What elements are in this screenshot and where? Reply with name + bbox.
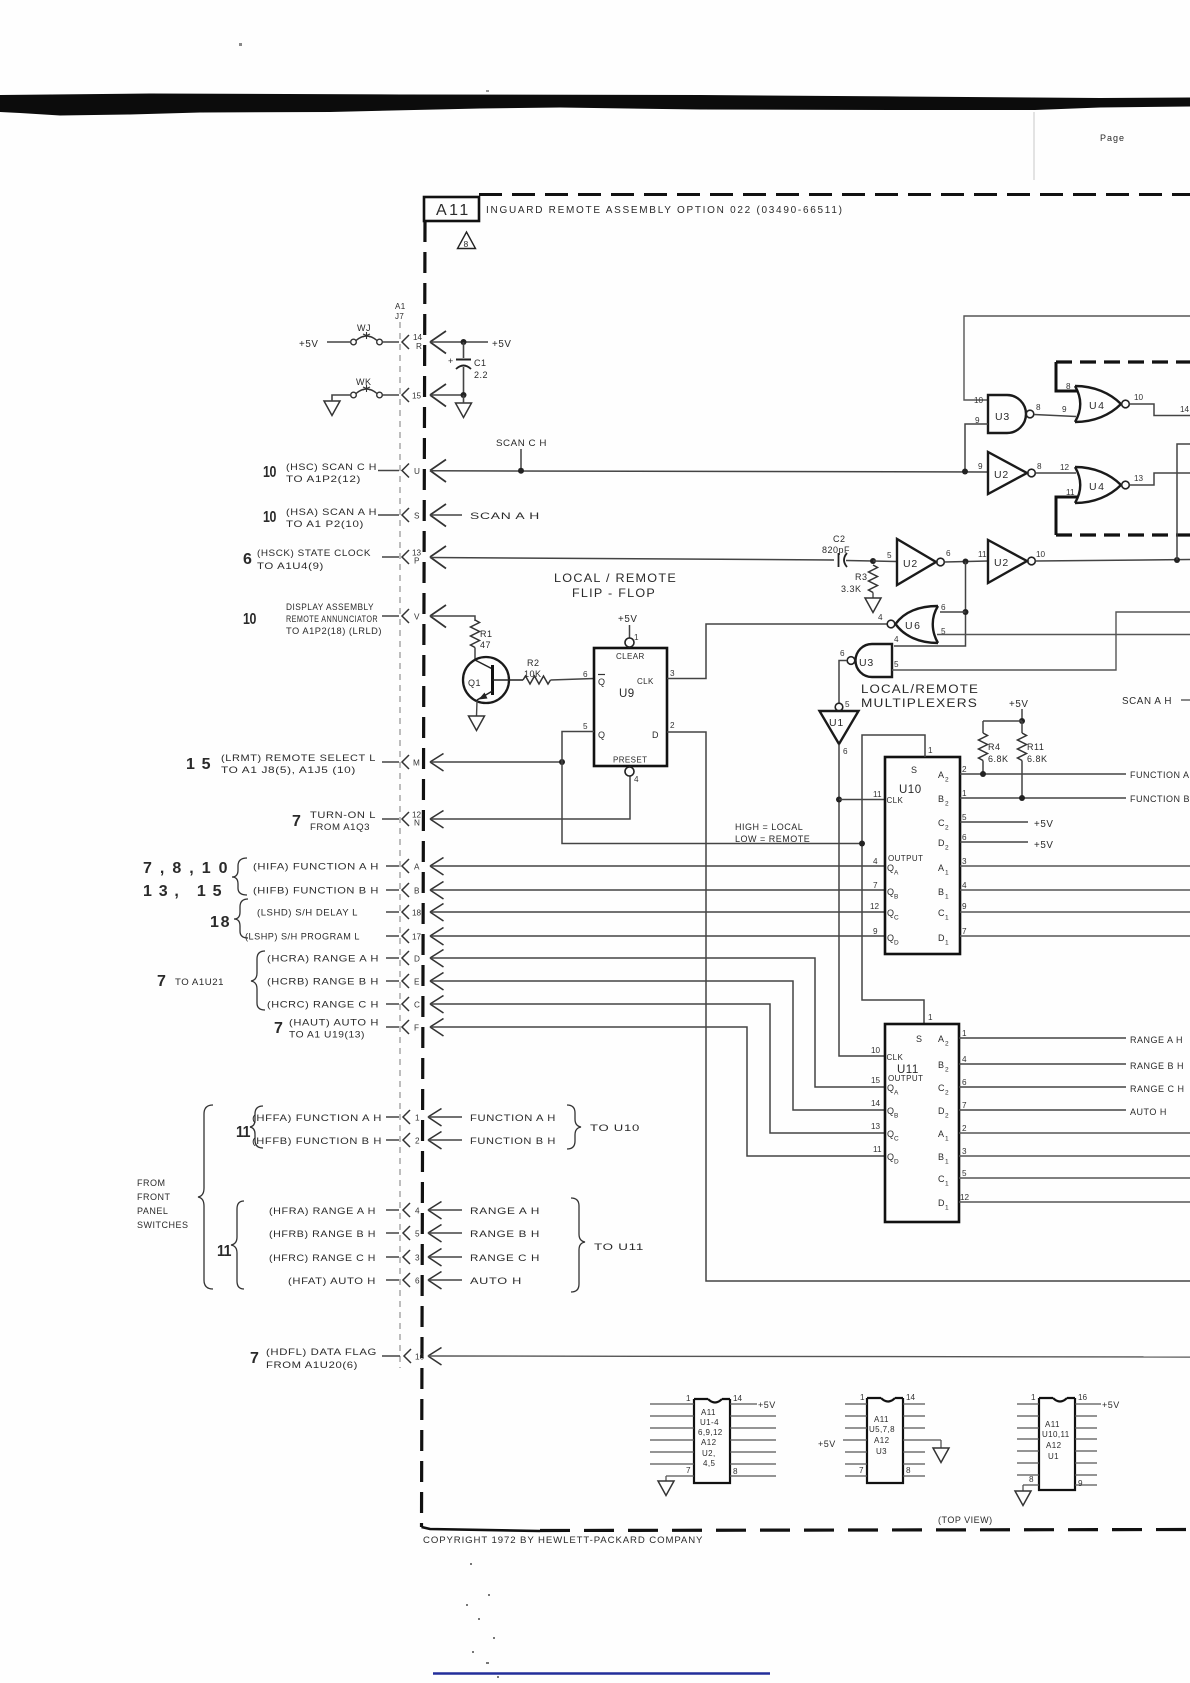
svg-text:3: 3 xyxy=(962,1147,967,1156)
svg-text:+5V: +5V xyxy=(818,1439,836,1449)
svg-text:5: 5 xyxy=(894,660,899,669)
svg-text:TO A1 U19(13): TO A1 U19(13) xyxy=(289,1030,365,1040)
svg-text:FROM A1Q3: FROM A1Q3 xyxy=(310,822,370,832)
scan artifact: blue line xyxy=(433,1672,770,1674)
svg-text:AUTO H: AUTO H xyxy=(470,1276,522,1286)
svg-text:5: 5 xyxy=(962,1169,967,1178)
svg-text:6.8K: 6.8K xyxy=(1027,754,1048,764)
ground (DIP3) xyxy=(1022,1485,1024,1491)
wire turn-on to U9 preset xyxy=(430,776,630,819)
svg-text:1: 1 xyxy=(415,1114,420,1123)
scan artifact: black bar xyxy=(0,94,1190,116)
inverter U2 (third) xyxy=(988,540,1046,583)
ground (R3) xyxy=(865,598,881,613)
connector pin M (LRMT) REMOTE SELECT xyxy=(186,753,444,775)
wire U11 A2 (RANGE A) xyxy=(959,1037,1126,1039)
svg-text:15: 15 xyxy=(871,1076,881,1085)
junction: U6 pin 6 tap xyxy=(963,609,969,615)
svg-text:TO A1U21: TO A1U21 xyxy=(175,977,224,987)
wire U4.13 output xyxy=(1130,473,1190,485)
svg-text:(HCRB) RANGE B H: (HCRB) RANGE B H xyxy=(267,977,379,987)
svg-text:TO A1P2(18) (LRLD): TO A1P2(18) (LRLD) xyxy=(286,626,382,636)
wire function B to U10 QB xyxy=(430,889,885,891)
svg-text:11: 11 xyxy=(978,550,987,559)
svg-text:B: B xyxy=(938,1060,945,1070)
svg-text:(HSCK) STATE CLOCK: (HSCK) STATE CLOCK xyxy=(257,548,371,558)
svg-text:6: 6 xyxy=(840,649,845,658)
svg-text:7: 7 xyxy=(292,813,301,830)
wire function A to U10 QA xyxy=(430,865,885,867)
svg-text:6: 6 xyxy=(415,1277,420,1286)
brace TO U10 xyxy=(567,1105,640,1149)
svg-text:U9: U9 xyxy=(619,688,635,700)
svg-text:B: B xyxy=(938,1152,945,1162)
svg-text:U2: U2 xyxy=(903,558,918,570)
junction: U2.10 output branch xyxy=(1174,557,1180,563)
svg-text:B: B xyxy=(894,894,898,901)
svg-text:1: 1 xyxy=(945,915,949,922)
wire U11 A1 xyxy=(959,1132,1190,1134)
svg-text:(HSA) SCAN A H: (HSA) SCAN A H xyxy=(286,507,377,517)
svg-text:U10: U10 xyxy=(899,784,922,796)
title LOCAL/REMOTE FLIP-FLOP xyxy=(554,571,677,600)
svg-text:5: 5 xyxy=(845,700,850,709)
wire state clock to C2 xyxy=(430,558,834,561)
group label 7,8,10 / 13,15 xyxy=(143,858,247,900)
svg-text:U: U xyxy=(414,467,420,476)
svg-text:U1: U1 xyxy=(1048,1452,1059,1461)
svg-text:3: 3 xyxy=(962,857,967,866)
svg-text:V: V xyxy=(414,613,420,622)
svg-text:REMOTE ANNUNCIATOR: REMOTE ANNUNCIATOR xyxy=(286,614,378,624)
svg-text:N: N xyxy=(414,819,420,828)
svg-text:(HSC) SCAN C H: (HSC) SCAN C H xyxy=(286,462,377,472)
svg-text:4: 4 xyxy=(634,775,639,784)
svg-text:D: D xyxy=(938,838,945,848)
svg-text:2: 2 xyxy=(945,1113,949,1120)
junction: C1 bottom node xyxy=(461,392,467,398)
wire branch to upper right xyxy=(1177,444,1190,560)
svg-text:TO A1 J8(5), A1J5 (10): TO A1 J8(5), A1J5 (10) xyxy=(221,765,356,775)
svg-text:D: D xyxy=(894,1159,899,1166)
wire U10 D1 xyxy=(960,935,1190,937)
junction: U2.6 node xyxy=(963,559,969,565)
group label 18 xyxy=(210,899,248,938)
svg-text:U3: U3 xyxy=(859,657,874,669)
wire U2.10 output xyxy=(1036,560,1190,562)
svg-text:TO A1 P2(10): TO A1 P2(10) xyxy=(286,519,364,529)
svg-text:INGUARD REMOTE ASSEMBLY OPTION: INGUARD REMOTE ASSEMBLY OPTION 022 (0349… xyxy=(486,205,844,216)
svg-text:C1: C1 xyxy=(474,358,487,368)
svg-text:AUTO H: AUTO H xyxy=(1130,1107,1167,1117)
svg-text:C: C xyxy=(414,1001,420,1010)
svg-text:(HAUT) AUTO H: (HAUT) AUTO H xyxy=(289,1018,379,1028)
IC power table: DIP package A11 U5,7,8 xyxy=(818,1393,941,1483)
svg-text:10: 10 xyxy=(871,1046,881,1055)
svg-text:14: 14 xyxy=(733,1394,743,1403)
svg-text:2: 2 xyxy=(415,1137,420,1146)
svg-text:1: 1 xyxy=(945,1136,949,1143)
wire WK to pin 15 xyxy=(383,394,400,396)
wire U3.9 from scan C net xyxy=(965,424,988,472)
connector pin D (HCRA) RANGE A H xyxy=(267,950,444,968)
wire U6.5 (to right edge) xyxy=(937,634,1190,636)
wire U3.8 to U4 pin 9 xyxy=(1034,415,1076,417)
svg-text:6: 6 xyxy=(946,549,951,558)
svg-text:(HFFB) FUNCTION B H: (HFFB) FUNCTION B H xyxy=(252,1136,382,1146)
wire U10 C2 +5V xyxy=(960,821,1028,823)
svg-text:S: S xyxy=(916,1034,923,1044)
wire U10 B2 (FUNCTION B) xyxy=(960,797,1126,799)
connector pin 5 (HFRB) RANGE B H xyxy=(269,1225,540,1243)
svg-text:Q: Q xyxy=(598,730,606,740)
svg-text:11: 11 xyxy=(873,1145,882,1154)
svg-text:10: 10 xyxy=(1036,550,1046,559)
svg-text:+5V: +5V xyxy=(1102,1400,1120,1410)
svg-text:16: 16 xyxy=(1078,1393,1088,1402)
svg-text:C2: C2 xyxy=(833,534,846,544)
svg-text:8: 8 xyxy=(464,239,469,249)
connector pin U (HSC) SCAN C H xyxy=(263,460,446,485)
svg-text:1: 1 xyxy=(860,1393,865,1402)
svg-text:7: 7 xyxy=(274,1020,283,1037)
svg-text:WK: WK xyxy=(356,377,372,387)
svg-text:1: 1 xyxy=(945,1159,949,1166)
node scan C label tick xyxy=(496,438,547,474)
svg-text:1: 1 xyxy=(634,633,639,642)
svg-text:FUNCTION B H: FUNCTION B H xyxy=(1130,794,1190,804)
svg-text:(LSHD) S/H DELAY L: (LSHD) S/H DELAY L xyxy=(257,908,358,918)
svg-text:F: F xyxy=(414,1024,419,1033)
svg-text:TURN-ON L: TURN-ON L xyxy=(310,810,376,820)
svg-text:+5V: +5V xyxy=(1034,819,1054,830)
warning triangle symbol xyxy=(458,232,476,249)
nor U4 (second) xyxy=(1066,467,1129,503)
connector pin 2 (HFFB) FUNCTION B H xyxy=(252,1132,556,1150)
svg-text:SCAN A H: SCAN A H xyxy=(1122,696,1172,707)
svg-text:C: C xyxy=(938,908,945,918)
svg-text:U3: U3 xyxy=(876,1447,887,1456)
svg-text:4: 4 xyxy=(962,1055,967,1064)
svg-text:R11: R11 xyxy=(1027,742,1044,752)
svg-text:2: 2 xyxy=(945,1067,949,1074)
wire U4.8 feedback (heavy dashed) xyxy=(1056,362,1190,391)
svg-text:2: 2 xyxy=(962,1124,967,1133)
svg-text:U4: U4 xyxy=(1089,400,1105,412)
svg-text:9: 9 xyxy=(1062,405,1067,414)
wire U11 D2 (AUTO) xyxy=(959,1109,1126,1111)
svg-text:4,5: 4,5 xyxy=(703,1459,715,1468)
wire U2.6 to U2.11 xyxy=(945,561,989,562)
svg-text:9: 9 xyxy=(1078,1479,1083,1488)
wire gnd to WK xyxy=(332,395,350,401)
svg-text:(HDFL) DATA FLAG: (HDFL) DATA FLAG xyxy=(266,1347,377,1357)
multiplexer U10 xyxy=(870,746,967,954)
svg-text:DISPLAY ASSEMBLY: DISPLAY ASSEMBLY xyxy=(286,602,374,612)
svg-text:1: 1 xyxy=(945,894,949,901)
wire U11 B1 xyxy=(959,1155,1190,1157)
wire U10 select S xyxy=(862,735,925,1024)
svg-text:14: 14 xyxy=(871,1099,881,1108)
svg-text:8: 8 xyxy=(1037,462,1042,471)
svg-text:7: 7 xyxy=(686,1466,691,1475)
svg-text:FUNCTION B H: FUNCTION B H xyxy=(470,1136,556,1146)
svg-text:10K: 10K xyxy=(524,669,542,679)
svg-text:HIGH = LOCAL: HIGH = LOCAL xyxy=(735,822,803,832)
svg-text:+5V: +5V xyxy=(758,1400,776,1410)
svg-text:10: 10 xyxy=(263,509,276,526)
svg-text:J7: J7 xyxy=(395,312,404,321)
svg-text:+5V: +5V xyxy=(492,339,512,350)
svg-text:6.8K: 6.8K xyxy=(988,754,1009,764)
svg-text:9: 9 xyxy=(978,462,983,471)
wire U10 C1 xyxy=(960,911,1190,913)
junction: R11 / B2 xyxy=(1019,795,1025,801)
svg-text:+5V: +5V xyxy=(1009,699,1029,710)
svg-text:8: 8 xyxy=(733,1467,738,1476)
connector pin S (HSA) SCAN A H xyxy=(263,504,446,529)
svg-text:6: 6 xyxy=(583,670,588,679)
svg-text:1: 1 xyxy=(945,1181,949,1188)
wire U9 Q to select net xyxy=(562,732,862,844)
svg-text:(HFAT) AUTO H: (HFAT) AUTO H xyxy=(288,1276,376,1286)
svg-text:1: 1 xyxy=(962,789,967,798)
svg-text:D: D xyxy=(894,940,899,947)
wire U9 D (to sheet right) xyxy=(667,732,1190,1281)
ground (C1) xyxy=(456,403,472,418)
svg-text:LOCAL/REMOTE: LOCAL/REMOTE xyxy=(861,684,979,696)
svg-text:10: 10 xyxy=(263,464,276,481)
svg-text:R4: R4 xyxy=(988,742,1001,752)
svg-text:R2: R2 xyxy=(527,658,540,668)
svg-text:P: P xyxy=(414,557,420,566)
svg-text:OUTPUT: OUTPUT xyxy=(888,1074,923,1083)
svg-text:C: C xyxy=(938,1083,945,1093)
svg-text:Q: Q xyxy=(598,677,606,687)
svg-text:A1: A1 xyxy=(395,302,406,311)
svg-text:2: 2 xyxy=(962,765,967,774)
svg-text:D: D xyxy=(938,1106,945,1116)
svg-text:OUTPUT: OUTPUT xyxy=(888,854,923,863)
inverter U2 (first) xyxy=(978,452,1042,494)
transistor Q1 xyxy=(463,657,523,703)
svg-text:U3: U3 xyxy=(995,411,1010,423)
connector pin E (HCRB) RANGE B H xyxy=(267,973,444,991)
wire / label SCAN A H xyxy=(430,514,462,516)
wire range B to U11 QB xyxy=(430,981,885,1110)
connector pin 12/N TURN-ON xyxy=(292,810,444,832)
junction: U10 CLK tap xyxy=(836,797,842,803)
nor U4 (first) xyxy=(1066,382,1129,422)
svg-text:TO A1U4(9): TO A1U4(9) xyxy=(257,561,324,571)
svg-text:8: 8 xyxy=(906,1466,911,1475)
svg-text:11: 11 xyxy=(217,1243,232,1260)
svg-text:4: 4 xyxy=(878,613,883,622)
svg-text:2: 2 xyxy=(945,825,949,832)
svg-text:(HCRA) RANGE A H: (HCRA) RANGE A H xyxy=(267,954,379,964)
svg-text:C: C xyxy=(938,1174,945,1184)
wire top feedback (U3 pin 10 net) xyxy=(964,316,1190,400)
svg-text:2: 2 xyxy=(945,801,949,808)
wire range A to U11 QA xyxy=(430,958,885,1087)
wire U2.8 to U4 pin 12 xyxy=(1036,472,1077,474)
svg-text:7: 7 xyxy=(962,1101,967,1110)
svg-text:A12: A12 xyxy=(701,1438,717,1447)
svg-text:(TOP VIEW): (TOP VIEW) xyxy=(938,1515,993,1525)
resistor R1 47 xyxy=(471,620,493,659)
svg-text:6: 6 xyxy=(962,1078,967,1087)
wire data flag (to right edge) xyxy=(428,1356,1190,1357)
svg-text:D: D xyxy=(652,730,659,740)
svg-text:TO U11: TO U11 xyxy=(594,1242,644,1252)
svg-text:Q1: Q1 xyxy=(468,678,481,688)
svg-text:FRONT: FRONT xyxy=(137,1192,171,1202)
junction: C1 top node xyxy=(461,339,467,345)
svg-text:1: 1 xyxy=(1031,1393,1036,1402)
svg-text:U10,11: U10,11 xyxy=(1042,1430,1070,1439)
svg-text:RANGE B H: RANGE B H xyxy=(1130,1061,1184,1071)
scan artifact: speckles xyxy=(466,1563,499,1678)
svg-text:3: 3 xyxy=(415,1254,420,1263)
svg-text:(HFRC) RANGE C H: (HFRC) RANGE C H xyxy=(269,1253,376,1263)
jumper WJ xyxy=(351,323,383,345)
svg-text:WJ: WJ xyxy=(357,323,371,333)
svg-text:12: 12 xyxy=(960,1193,970,1202)
wire U10 A2 (FUNCTION A) xyxy=(960,773,1126,775)
svg-text:FUNCTION A H: FUNCTION A H xyxy=(1130,770,1190,780)
assembly border top (dashed) xyxy=(479,193,1190,196)
FROM FRONT PANEL SWITCHES label xyxy=(137,1105,213,1289)
svg-text:B: B xyxy=(414,887,420,896)
svg-text:U2,: U2, xyxy=(702,1449,716,1458)
svg-text:U1: U1 xyxy=(829,717,844,729)
wire U11 B2 (RANGE B) xyxy=(959,1063,1126,1065)
wire Q1 emitter to ground xyxy=(476,701,479,716)
wire WJ to pin R xyxy=(383,341,400,343)
svg-text:C: C xyxy=(894,915,899,922)
svg-text:PANEL: PANEL xyxy=(137,1206,168,1216)
svg-text:A11: A11 xyxy=(436,202,471,219)
wire U11 D1 xyxy=(959,1201,1190,1203)
svg-text:R: R xyxy=(416,342,422,351)
svg-text:2.2: 2.2 xyxy=(474,370,488,380)
svg-text:TO U10: TO U10 xyxy=(590,1123,640,1133)
junction: select net / S line xyxy=(859,841,865,847)
svg-text:A: A xyxy=(938,1034,945,1044)
connector pin 15 xyxy=(402,384,446,407)
junction: scan C H tap xyxy=(518,468,524,474)
group label 11 (function) xyxy=(236,1106,263,1148)
svg-text:8: 8 xyxy=(1029,1475,1034,1484)
svg-text:1: 1 xyxy=(962,1029,967,1038)
svg-text:6: 6 xyxy=(941,603,946,612)
svg-text:B: B xyxy=(938,794,945,804)
svg-text:A: A xyxy=(938,1129,945,1139)
svg-text:7: 7 xyxy=(859,1466,864,1475)
svg-text:B: B xyxy=(938,887,945,897)
connector pin 18 (LSHD) S/H DELAY xyxy=(257,904,444,922)
nand U3 (second, mirrored) xyxy=(840,635,899,677)
nor U6 (mirrored) xyxy=(878,603,946,643)
ground (DIP2) xyxy=(940,1440,942,1448)
resistor R2 10K xyxy=(523,658,551,684)
svg-text:+5V: +5V xyxy=(299,339,319,350)
svg-text:(HFRB) RANGE B H: (HFRB) RANGE B H xyxy=(269,1229,376,1239)
svg-text:M: M xyxy=(413,759,420,768)
svg-text:FROM: FROM xyxy=(137,1178,166,1188)
connector pin C (HCRC) RANGE C H xyxy=(267,996,444,1014)
svg-text:D: D xyxy=(938,933,945,943)
junction: scan C H / U3 pin 9 xyxy=(962,469,968,475)
connector pin V display annunciator xyxy=(243,602,446,636)
svg-text:U5,7,8: U5,7,8 xyxy=(869,1425,895,1434)
svg-text:CLK: CLK xyxy=(887,796,904,805)
IC power table: DIP package A11 U10,11 xyxy=(1017,1393,1120,1490)
svg-text:(HIFB) FUNCTION B H: (HIFB) FUNCTION B H xyxy=(253,886,379,896)
svg-text:A: A xyxy=(894,1090,899,1097)
svg-text:6: 6 xyxy=(962,833,967,842)
svg-text:U6: U6 xyxy=(905,620,921,632)
wire U1.6 to U10/U11 CLK xyxy=(839,744,885,1056)
svg-text:A12: A12 xyxy=(874,1436,890,1445)
ground (Q1) xyxy=(469,716,485,731)
svg-text:2: 2 xyxy=(945,1090,949,1097)
svg-text:CLK: CLK xyxy=(887,1053,904,1062)
junction: remote select / Q net xyxy=(559,759,565,765)
svg-text:3: 3 xyxy=(670,669,675,678)
svg-text:11: 11 xyxy=(873,790,882,799)
svg-text:3.3K: 3.3K xyxy=(841,584,862,594)
connector pin 6 (HFAT) AUTO H xyxy=(288,1272,522,1290)
svg-text:7: 7 xyxy=(873,881,878,890)
svg-text:U2: U2 xyxy=(994,469,1009,481)
svg-text:Page: Page xyxy=(1100,133,1125,143)
wire range C to U11 QC xyxy=(430,1004,885,1133)
wire U3.6 to U1 input xyxy=(839,661,847,704)
svg-text:R1: R1 xyxy=(480,629,493,639)
svg-text:4: 4 xyxy=(894,635,899,644)
svg-text:PRESET: PRESET xyxy=(613,756,647,765)
svg-text:LOW = REMOTE: LOW = REMOTE xyxy=(735,834,810,844)
wire U10 D2 +5V xyxy=(960,841,1028,843)
svg-text:R3: R3 xyxy=(855,572,868,582)
svg-text:E: E xyxy=(414,978,420,987)
connector A1 J7 dashed line xyxy=(395,302,406,1368)
IC power table: DIP package A11 U1-4,6,9,12 xyxy=(650,1394,776,1483)
svg-text:4: 4 xyxy=(962,881,967,890)
wire U11 C1 xyxy=(959,1177,1190,1179)
flip-flop U9 xyxy=(583,633,675,784)
svg-text:SCAN C H: SCAN C H xyxy=(496,438,547,448)
inverter U1 (pointing down) xyxy=(820,700,859,756)
capacitor C2 820pF xyxy=(822,534,873,567)
svg-text:D: D xyxy=(938,1198,945,1208)
wire U10 A1 xyxy=(960,865,1190,867)
wire R2 to U9 Qbar xyxy=(551,679,595,681)
wire U11 C2 (RANGE C) xyxy=(959,1086,1126,1088)
svg-text:12: 12 xyxy=(870,902,880,911)
svg-text:FROM A1U20(6): FROM A1U20(6) xyxy=(266,1360,358,1370)
svg-text:5: 5 xyxy=(415,1230,420,1239)
svg-text:1: 1 xyxy=(928,1013,933,1022)
svg-text:FLIP - FLOP: FLIP - FLOP xyxy=(572,586,656,600)
connector pin 13/P (HSCK) STATE CLOCK xyxy=(243,546,446,571)
assembly border left (dashed) xyxy=(422,221,426,1527)
svg-text:A11: A11 xyxy=(701,1408,716,1417)
connector pin 4 (HFRA) RANGE A H xyxy=(269,1202,540,1220)
jumper WK xyxy=(351,377,383,398)
junction: +5V node xyxy=(1019,718,1025,724)
